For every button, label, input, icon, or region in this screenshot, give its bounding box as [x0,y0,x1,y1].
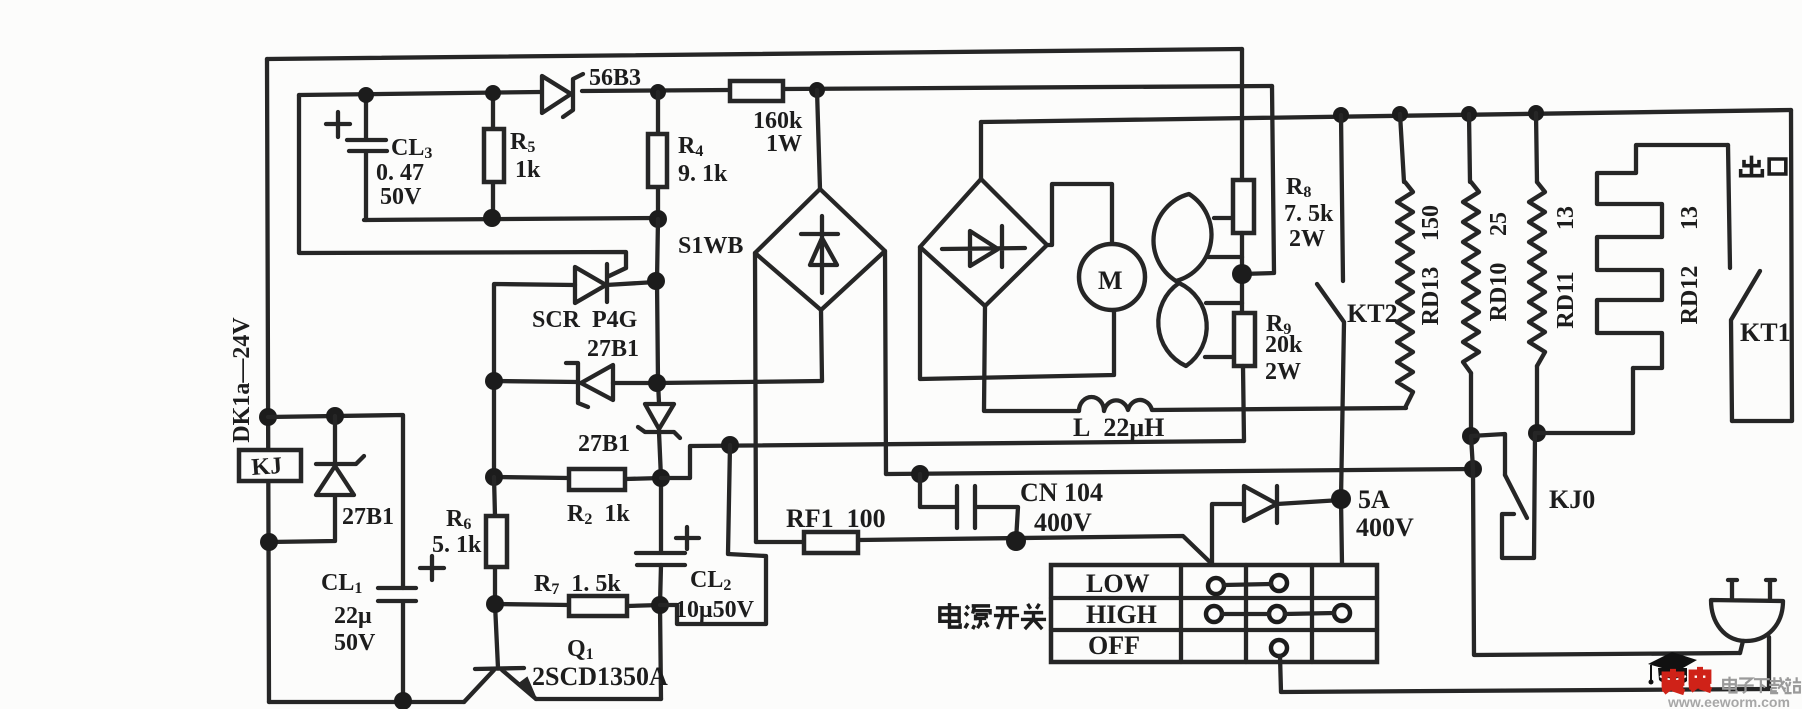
node junction R5 top [485,85,501,101]
capacitor CL1 plus sign [420,556,444,580]
switch KT2 [1317,115,1344,564]
resistor R9 20k [1234,313,1255,366]
wire SCR anode loop [494,282,656,477]
wire inner loop left (CL3 feed) [299,95,626,268]
node junction D2 left [485,372,503,390]
node junction R4 bottom [649,210,667,228]
node junction 160k right / bridge1 top feed [809,82,825,98]
switch KT1 [1728,145,1760,421]
svg-text:1k: 1k [515,157,541,183]
wire KJ top branch [268,415,403,588]
svg-text:CL2: CL2 [690,567,731,594]
resistor R8 7.5k [1233,180,1254,233]
svg-text:M: M [1098,266,1123,295]
inductor L 22uH [985,397,1406,411]
node junction RD10 KJ0 upper [1462,427,1480,445]
capacitor CL1 [378,588,416,701]
wire feedback row (R9 bottom to R2) [661,441,1244,478]
svg-text:1W: 1W [766,131,802,157]
wire bridge1 top stem [817,90,820,189]
svg-text:CL1: CL1 [321,570,362,597]
svg-text:RF1 100: RF1 100 [786,504,886,533]
svg-text:CN 104: CN 104 [1020,478,1103,507]
svg-text:RD11: RD11 [1553,271,1579,328]
svg-text:KJ0: KJ0 [1549,485,1595,514]
wire fan hook 3 [1206,301,1242,305]
svg-text:Q1: Q1 [567,636,594,663]
node junction 5A-KT2 [1331,489,1351,509]
bridge rectifier 2 (motor) [920,179,1047,306]
svg-text:7. 5k: 7. 5k [1284,201,1334,227]
wire OFF to bottom rail [1280,656,1769,692]
svg-text:R2 1k: R2 1k [567,501,630,528]
node junction rail3 RD10 [1461,106,1477,122]
svg-text:KJ: KJ [251,453,283,481]
contact HIGH c [1334,605,1350,621]
wire fan hook 1 [1214,216,1234,220]
node junction R7 right [651,596,669,614]
wire rail3 (motor bridge top rail to outlet) [981,110,1791,122]
diode 56B3 zener [542,74,583,117]
node junction R2 right [652,469,670,487]
svg-text:R5: R5 [510,129,535,156]
transistor Q1 2SCD1350A [464,668,536,702]
wire RD12 bottom link [1537,368,1633,433]
label power switch 电源开关 [940,603,1046,629]
wire fan hook 2 [1208,255,1242,259]
resistor RD12 heater meander [1597,145,1728,368]
resistor R7 1.5k [495,604,660,606]
watermark graduation cap [1648,652,1697,685]
node junction R2 left [485,468,503,486]
node junction R7 left [486,595,504,613]
watermark 虫虫 red [1662,667,1711,692]
svg-text:5. 1k: 5. 1k [432,532,482,558]
resistor RF1 100 [804,532,858,553]
switch KJ0 upper contact [1471,434,1505,475]
capacitor CL2 plus sign [676,527,699,549]
wire D2 row [494,381,822,383]
resistor R4 [656,92,660,219]
fan blade upper [1154,194,1212,281]
node junction zener1 top [326,407,344,425]
diode D3 27B1 down-pointing zener [638,404,680,438]
svg-text:DK1a—24V: DK1a—24V [229,317,255,443]
diode 5A 400V [1212,486,1341,564]
wire right border vertical (outlet side) [1732,110,1792,421]
svg-text:R6: R6 [446,506,471,533]
contact LOW b [1271,575,1287,591]
bridge S1WB internal diode [801,216,838,293]
node junction rail3 RD11 [1528,105,1544,121]
svg-text:2SCD1350A: 2SCD1350A [532,662,668,691]
switch KJ0 blade [1505,475,1527,518]
wire plug left lead [1740,641,1743,653]
svg-text:RD12: RD12 [1677,266,1703,325]
svg-text:2W: 2W [1289,226,1325,252]
wire R4 branch vertical (main mid vertical) [657,219,661,699]
svg-text:www.eeworm.com: www.eeworm.com [1667,695,1790,709]
node junction D2 right [648,374,666,392]
svg-text:150: 150 [1418,205,1444,241]
svg-text:400V: 400V [1034,508,1092,537]
capacitor CN 104 400V [920,474,1018,541]
wire left border vertical [267,59,269,702]
svg-text:KT1: KT1 [1740,318,1791,347]
svg-text:50V: 50V [334,630,376,656]
power switch table rows [1051,598,1377,630]
resistor 160k 1W [730,81,783,101]
svg-text:R4: R4 [678,133,703,160]
wire KJ0 feed row [886,469,1473,474]
svg-text:27B1: 27B1 [578,431,630,457]
switch KJ0 lower contact [1502,433,1535,558]
thyristor SCR P4G [575,264,626,303]
resistor RD10 25 [1469,114,1470,182]
node junction left border KJ top [259,408,277,426]
wire bridge2 right leg to motor [1047,184,1112,245]
node junction CN104 left [911,465,929,483]
svg-text:2W: 2W [1265,359,1301,385]
power switch table frame [1051,565,1377,662]
wire bridge1 left leg [755,253,756,542]
svg-text:50V: 50V [380,184,422,210]
node junction R8-R9 [1232,264,1252,284]
node junction CL3 top [358,87,374,103]
wire LOW link [1224,584,1271,585]
relay coil KJ box [239,450,301,481]
svg-text:RD10: RD10 [1486,263,1512,322]
wire fan hook 4 [1205,355,1234,359]
svg-text:0. 47: 0. 47 [376,160,424,186]
wire rail2 horizontal (24V rail) [299,86,1272,95]
node junction RF1-CN104 [1006,531,1026,551]
node junction R4 top [650,84,666,100]
svg-text:13: 13 [1553,206,1579,230]
node junction left border zener bottom [260,533,278,551]
fan blade lower [1158,283,1206,366]
svg-text:20k: 20k [1265,332,1303,358]
diode D2 27B1 left-pointing [566,363,613,407]
svg-text:HIGH: HIGH [1086,600,1157,629]
wire bridge2 bottom stem [984,306,985,411]
node junction R5 bottom [483,209,501,227]
wire RF1 row [756,536,1212,564]
motor M [1079,244,1145,310]
resistor R6 [486,516,507,567]
wire CL3/R5/R4 bottom bus [364,218,658,220]
contact LOW a [1208,578,1224,594]
watermark 电子下载站 gray [1723,677,1801,693]
node junction rail3 KT2 [1333,107,1349,123]
wire R8/R9 branch vertical upper segment [1240,49,1244,180]
svg-text:KT2: KT2 [1347,299,1398,328]
svg-text:S1WB: S1WB [678,233,743,259]
svg-text:OFF: OFF [1088,631,1140,660]
svg-text:9. 1k: 9. 1k [678,161,728,187]
svg-text:L 22μH: L 22μH [1073,413,1164,442]
svg-text:RD13: RD13 [1418,267,1444,326]
svg-text:SCR P4G: SCR P4G [532,307,638,333]
ac plug [1711,580,1783,641]
wire bridge1 right leg [885,251,886,474]
svg-text:400V: 400V [1356,513,1414,542]
node junction CL1 bottom [394,692,412,709]
wire plug right lead [1767,637,1771,689]
bridge rectifier S1WB [755,189,885,310]
svg-text:R7 1. 5k: R7 1. 5k [534,571,621,598]
svg-text:56B3: 56B3 [589,65,641,91]
svg-text:5A: 5A [1358,485,1390,514]
resistor RD11 13 [1536,113,1537,182]
wire bottom rail left (collector side) [269,700,464,704]
svg-text:27B1: 27B1 [587,336,639,362]
svg-text:LOW: LOW [1086,569,1150,598]
contact HIGH a [1206,606,1222,622]
label outlet 出口 [1741,156,1786,176]
svg-text:25: 25 [1486,212,1512,236]
power switch table columns [1181,565,1312,662]
capacitor CL3 [347,95,387,220]
node junction rail3 RD13 [1392,106,1408,122]
bridge2 internal diode [942,226,1025,267]
resistor RD13 150 [1400,114,1404,182]
svg-text:13: 13 [1677,206,1703,230]
resistor R5 [491,94,495,218]
node junction CL2 branch [721,436,739,454]
svg-text:CL3: CL3 [391,135,432,162]
svg-text:10μ50V: 10μ50V [675,597,755,623]
node junction KJ0 feed [1464,460,1482,478]
wire rail2 right drop to R8-R9 junction [1242,86,1274,274]
wire HIGH link [1222,613,1334,614]
contact HIGH b [1269,606,1285,622]
svg-text:27B1: 27B1 [342,504,394,530]
capacitor CL3 plus sign [326,112,350,137]
wire bridge2 left leg [920,247,1114,379]
node junction RD11-RD12 [1528,424,1546,442]
wire bottom rail right (emitter side) [536,697,661,701]
svg-text:R8: R8 [1286,174,1311,201]
wire R6 branch vertical [494,477,498,668]
wire RD10 line to plug [1471,436,1740,655]
capacitor CL2 [636,553,685,565]
resistor R2 1k [494,477,661,479]
wire bridge1 bottom stem [821,310,822,381]
capacitor CL2 box outline [660,445,766,624]
contact OFF [1271,640,1287,656]
diode zener1 27B1 [269,416,364,542]
node junction SCR cathode [647,272,665,290]
svg-text:22μ: 22μ [334,603,372,629]
wire top rail from top-left corner to R8 branch [267,49,1242,59]
wire bridge2 top stem [979,122,983,179]
